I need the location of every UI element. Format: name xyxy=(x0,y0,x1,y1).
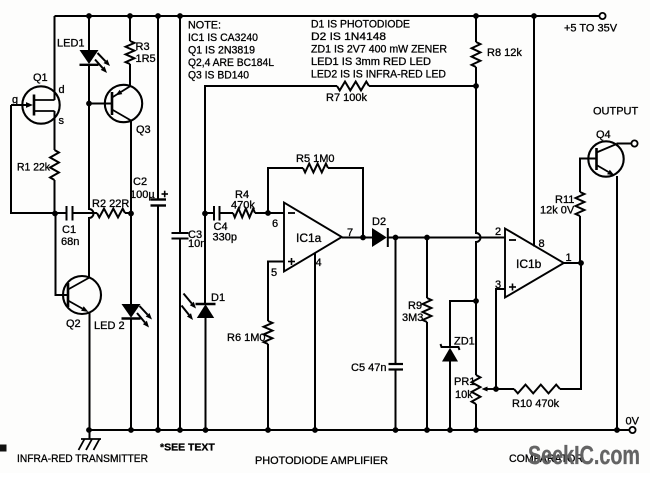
svg-text:R5 1M0: R5 1M0 xyxy=(296,153,335,165)
capacitor C1 xyxy=(67,206,73,221)
svg-text:4: 4 xyxy=(316,257,322,269)
D1 incident light arrows xyxy=(182,294,197,321)
wire reference column down with hop over signal wire xyxy=(476,86,481,301)
svg-text:8: 8 xyxy=(539,238,545,250)
wire R9 column xyxy=(426,238,428,299)
wire R9 to ground rail xyxy=(426,322,428,430)
resistor R8 xyxy=(472,16,481,86)
svg-text:1: 1 xyxy=(566,252,572,264)
junction dot rail R9 xyxy=(424,427,430,433)
wire top +V supply rail xyxy=(55,15,601,17)
Q4 emitter with arrow xyxy=(597,165,609,172)
wire Q1 drain to top rail xyxy=(54,16,56,100)
resistor R7 xyxy=(337,82,369,91)
resistor R9 xyxy=(423,298,432,322)
junction dot top rail / IC1b pin 8 xyxy=(531,13,537,19)
resistor R1 xyxy=(50,150,59,180)
svg-text:C5 47n: C5 47n xyxy=(351,362,386,374)
svg-text:10k: 10k xyxy=(455,389,473,401)
svg-text:2: 2 xyxy=(495,226,501,238)
wire D1 anode to ground rail xyxy=(205,318,207,430)
junction dot IC1b output node xyxy=(578,260,584,266)
junction dot rail LED2 xyxy=(128,427,134,433)
junction dot rail ZD1 xyxy=(447,427,453,433)
wire ZD1 anode to ground rail xyxy=(449,362,451,431)
C2 plus sign xyxy=(162,191,169,198)
resistor R3 xyxy=(126,16,135,86)
wire reference node down to PR1 xyxy=(475,301,477,375)
svg-text:LED2 IS IS INFRA-RED LED: LED2 IS IS INFRA-RED LED xyxy=(311,69,446,81)
svg-text:R6 1M0: R6 1M0 xyxy=(227,332,266,344)
wire C5 to ground rail xyxy=(395,370,397,431)
junction dot PR1 wiper node xyxy=(493,386,499,392)
terminal OUTPUT xyxy=(631,140,637,146)
svg-text:R7 100k: R7 100k xyxy=(326,92,367,104)
wire Q2 emitter to ground rail xyxy=(89,313,91,431)
svg-text:*SEE TEXT: *SEE TEXT xyxy=(160,442,215,454)
svg-text:5: 5 xyxy=(271,267,277,279)
PR1 wiper arrow xyxy=(488,388,496,390)
svg-text:LED 2: LED 2 xyxy=(94,320,125,332)
wire R11 to Q4 base xyxy=(580,159,597,193)
Q3 emitter lead with arrow pointing into base (PNP) xyxy=(112,86,131,98)
capacitor C4 (330p) xyxy=(214,206,220,221)
LED LED2 (infra-red) xyxy=(122,304,141,319)
zener diode ZD1 (2V7) xyxy=(441,344,460,362)
svg-text:Q4: Q4 xyxy=(596,129,611,141)
svg-text:PHOTODIODE AMPLIFIER: PHOTODIODE AMPLIFIER xyxy=(255,455,388,467)
junction dot top rail / LED1 anode xyxy=(86,13,92,19)
svg-text:C2: C2 xyxy=(133,176,147,188)
photodiode D1 xyxy=(196,304,216,318)
junction dot rail PR1 xyxy=(473,427,479,433)
svg-text:Q1: Q1 xyxy=(33,72,48,84)
junction dot rail D1 xyxy=(203,427,209,433)
svg-text:IC1a: IC1a xyxy=(296,231,322,245)
junction dot rail IC1a pin4 xyxy=(312,427,318,433)
wire R4 to inverting input node xyxy=(255,212,268,214)
svg-text:3M3: 3M3 xyxy=(402,312,423,324)
wire IC1a pin 6 input xyxy=(268,212,284,214)
wire LED2 cathode to ground rail xyxy=(130,319,132,431)
junction dot reference node ZD1/PR1 xyxy=(473,298,479,304)
svg-text:D2 IS 1N4148: D2 IS 1N4148 xyxy=(311,31,386,43)
capacitor C2 (100u electrolytic) xyxy=(151,16,167,430)
svg-text:12k 0V: 12k 0V xyxy=(540,205,575,217)
junction dot rail C2 xyxy=(155,427,161,433)
diode D2 (1N4148) xyxy=(372,228,388,247)
wire output node up to R11 xyxy=(579,216,581,263)
wire node to C4 xyxy=(205,212,214,214)
svg-text:NOTE:: NOTE: xyxy=(188,20,221,32)
svg-text:R9: R9 xyxy=(408,300,422,312)
svg-text:Q2: Q2 xyxy=(66,318,81,330)
svg-text:LED1: LED1 xyxy=(57,38,85,50)
junction dot rail C5 xyxy=(393,427,399,433)
svg-text:IC1 IS CA3240: IC1 IS CA3240 xyxy=(188,32,258,44)
junction dot LED1 column / Q3 base xyxy=(86,101,92,107)
junction dot rail ground xyxy=(86,427,92,433)
wire C5 column xyxy=(395,238,397,365)
wire LED1 cathode down, hop over C1-R2 wire, to Q2 collector xyxy=(89,65,94,278)
svg-text:0V: 0V xyxy=(626,416,640,428)
junction dot rail C3 xyxy=(177,427,183,433)
svg-text:IC1b: IC1b xyxy=(516,257,542,271)
svg-text:PR1: PR1 xyxy=(454,376,475,388)
wire C1 to R2 xyxy=(73,212,98,214)
wire Q3 base xyxy=(89,103,112,105)
Q2 emitter with arrow xyxy=(68,301,82,309)
wire wiper up to IC1b pin 3 xyxy=(496,289,505,389)
transistor Q2 (BC184L) xyxy=(63,276,101,314)
svg-text:470k: 470k xyxy=(231,200,255,212)
ground symbol xyxy=(79,430,102,450)
svg-text:C1: C1 xyxy=(62,224,76,236)
capacitor C3 (10n) xyxy=(172,16,189,430)
wire Q4 emitter to 0V rail xyxy=(616,176,618,430)
wire R7 to R8 junction xyxy=(369,85,476,87)
wire bottom 0V rail xyxy=(89,429,617,431)
svg-text:1R5: 1R5 xyxy=(136,53,156,65)
resistor R5 xyxy=(303,164,328,173)
wire R7 feedback loop left vertical xyxy=(205,86,337,214)
wire PR1 bottom to ground rail xyxy=(475,404,477,430)
junction dot output/R5 xyxy=(360,235,366,241)
LED LED1 (3mm red) xyxy=(80,16,99,65)
svg-text:R8 12k: R8 12k xyxy=(487,47,522,59)
wire R2 to node xyxy=(125,212,131,214)
svg-text:ZD1 IS 2V7 400 mW ZENER: ZD1 IS 2V7 400 mW ZENER xyxy=(311,44,447,56)
op-amp IC1b xyxy=(505,229,564,298)
transistor Q3 (BD140 PNP) xyxy=(105,85,142,122)
wire R6 to ground rail xyxy=(267,344,269,430)
LED2 emission arrows xyxy=(137,306,152,328)
svg-text:+5 TO 35V: +5 TO 35V xyxy=(564,23,618,35)
wire rail to 0V terminal xyxy=(617,429,630,431)
svg-text:s: s xyxy=(59,115,65,127)
resistor R10 xyxy=(514,385,560,394)
wire IC1a output pin 7 xyxy=(342,237,372,239)
wire IC1b pin 8 to top rail xyxy=(533,16,535,247)
svg-text:R3: R3 xyxy=(136,41,150,53)
transistor Q1 (2N3819 JFET) xyxy=(22,86,59,123)
junction dot rail R6 xyxy=(265,427,271,433)
wire R1 bottom to node xyxy=(54,180,56,213)
wire ZD1 branch xyxy=(450,301,476,347)
preset PR1 10k xyxy=(472,375,481,404)
svg-text:68n: 68n xyxy=(61,236,79,248)
svg-text:SeekIC.com: SeekIC.com xyxy=(528,442,640,470)
wire D2 cathode to IC1b pin 2 xyxy=(388,237,505,239)
Q1 gate lead with arrow xyxy=(11,104,26,106)
LED1 emission arrows xyxy=(95,53,110,73)
wire IC1b output pin 1 xyxy=(564,262,581,264)
svg-text:3: 3 xyxy=(495,279,501,291)
junction dot C5 node xyxy=(393,235,399,241)
scan artifact bottom left xyxy=(0,445,7,452)
wire Q1 gate down to C1 node xyxy=(11,105,66,213)
wire Q3 collector down to R2 node xyxy=(130,121,132,214)
svg-text:6: 6 xyxy=(272,218,278,230)
svg-text:Q2,4 ARE BC184L: Q2,4 ARE BC184L xyxy=(188,57,274,69)
transistor Q4 (BC184L) xyxy=(588,141,623,176)
wire R5 feedback loop xyxy=(268,168,303,213)
junction dot R7/R8/reference column xyxy=(473,83,479,89)
junction dot top rail / C2 xyxy=(155,13,161,19)
wire Q4 collector to output terminal xyxy=(617,143,632,145)
svg-text:R1 22k: R1 22k xyxy=(17,162,50,174)
svg-text:INFRA-RED TRANSMITTER: INFRA-RED TRANSMITTER xyxy=(17,453,148,465)
svg-text:Q3: Q3 xyxy=(136,124,151,136)
svg-text:7: 7 xyxy=(347,227,353,239)
junction dot emitter / 0V rail xyxy=(614,427,620,433)
svg-text:10n: 10n xyxy=(188,238,206,250)
wire IC1a pin 4 to ground rail xyxy=(314,253,316,430)
wire R10 to IC1b output node xyxy=(560,264,581,390)
svg-text:Q3 IS BD140: Q3 IS BD140 xyxy=(188,70,249,82)
svg-text:D2: D2 xyxy=(372,216,386,228)
svg-text:Q1 IS 2N3819: Q1 IS 2N3819 xyxy=(188,45,255,57)
svg-text:D1: D1 xyxy=(211,292,225,304)
junction dot C4/D1 node xyxy=(202,211,208,217)
svg-text:OUTPUT: OUTPUT xyxy=(593,106,639,118)
wire Q1 source down to R1 xyxy=(54,111,56,150)
wire R5 right side down to output node xyxy=(328,168,363,238)
wire IC1a pin 5 input step xyxy=(268,262,284,322)
resistor R2 xyxy=(97,209,125,218)
resistor R4 xyxy=(233,209,255,218)
wire R10 from wiper xyxy=(496,388,514,390)
op-amp IC1a xyxy=(284,203,342,272)
node junction R2/Q3 collector/LED2 xyxy=(128,211,134,217)
svg-text:LED1 IS 3mm RED LED: LED1 IS 3mm RED LED xyxy=(311,56,431,68)
wire D1 column down to photodiode xyxy=(204,214,206,305)
svg-text:g: g xyxy=(12,94,18,106)
resistor R11 xyxy=(576,192,585,216)
junction dot R9 node xyxy=(424,235,430,241)
terminal 0V xyxy=(629,427,635,433)
svg-text:D1 IS PHOTODIODE: D1 IS PHOTODIODE xyxy=(311,19,410,31)
wire Q2 base from C1 node xyxy=(56,214,69,296)
svg-text:d: d xyxy=(59,84,65,96)
note text block left xyxy=(188,20,274,82)
svg-text:R2 22R: R2 22R xyxy=(92,198,129,210)
node junction R1/C1/Q2 base xyxy=(52,211,58,217)
capacitor C5 (47n) xyxy=(389,364,404,370)
svg-text:100µ: 100µ xyxy=(130,189,155,201)
wire C4 to R4 xyxy=(220,212,234,214)
junction dot top rail / R8 xyxy=(473,13,479,19)
resistor R6 xyxy=(264,321,273,344)
terminal +5 TO 35V xyxy=(599,13,605,19)
junction dot IC1a inverting input node xyxy=(265,210,271,216)
wire node down to LED2 xyxy=(130,213,132,304)
note text block right xyxy=(311,19,447,81)
junction dot top rail / C3 xyxy=(177,13,183,19)
svg-text:ZD1: ZD1 xyxy=(454,336,475,348)
junction dot top rail / R3 xyxy=(127,13,133,19)
svg-text:330p: 330p xyxy=(213,232,237,244)
svg-text:R10 470k: R10 470k xyxy=(512,398,560,410)
